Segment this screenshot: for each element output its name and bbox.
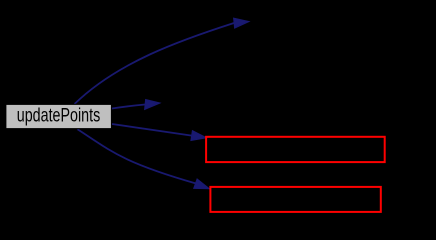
node red box 1 (truncated callee) [206,137,385,162]
svg-text:updatePoints: updatePoints [17,105,101,127]
edge arrow 3 (updatePoints to red node 1) [112,124,207,141]
edge arrow 4 (updatePoints to red node 2) [78,129,210,189]
edge arrow 1 (updatePoints to top hidden node) [75,18,250,104]
node updatePoints (grey current node) [6,104,112,128]
node red box 2 (truncated callee) [210,187,380,212]
edge arrow 2 (updatePoints to middle hidden node) [112,100,160,110]
